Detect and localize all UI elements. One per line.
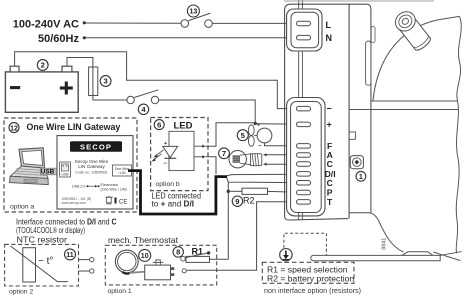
svg-text:One Wire LIN Gateway: One Wire LIN Gateway (27, 122, 121, 132)
thermistor R11 body (23, 248, 36, 282)
pin T (297, 200, 311, 205)
svg-text:11: 11 (66, 252, 74, 259)
suction pipe stub body (395, 13, 432, 53)
gateway One Wire LIN port box (112, 165, 131, 176)
LED lead lower (194, 156, 203, 158)
connector stem middle (298, 51, 300, 97)
pin P (297, 190, 311, 195)
node R1 dot (207, 251, 210, 254)
svg-text:NTC resistor: NTC resistor (17, 235, 68, 245)
pin minus (297, 106, 311, 111)
svg-text:R2: R2 (243, 196, 255, 206)
switch across R1 pivot (181, 256, 186, 261)
AC connector outer (287, 9, 322, 51)
svg-text:USB: USB (61, 173, 69, 177)
wire fuse to switch 4 (93, 96, 127, 101)
svg-text:T: T (327, 197, 333, 207)
option box 6 LED (151, 118, 208, 191)
svg-text:9: 9 (235, 197, 239, 206)
pin N (297, 35, 311, 40)
svg-text:USB: USB (41, 169, 55, 176)
laptop PC (9, 148, 48, 185)
svg-text:/ LIN: / LIN (118, 171, 126, 175)
pin F (297, 144, 311, 149)
unit right edge (348, 4, 350, 218)
svg-text:option b: option b (156, 181, 180, 188)
svg-text:CE: CE (119, 200, 127, 206)
wire AC line L to switch 13 (86, 22, 182, 24)
thermostat terminals (171, 267, 175, 270)
svg-text:LED: LED (174, 121, 193, 132)
switch S13 (181, 13, 212, 27)
svg-text:C: C (327, 178, 333, 188)
wire R1 to C2 drop (210, 258, 229, 260)
label circle 5 (237, 130, 248, 141)
wire LED minus to interface cable (206, 157, 216, 174)
gateway USB port icon (60, 162, 71, 177)
interface cable thick black (128, 171, 227, 214)
compressor skirt (369, 213, 404, 252)
fan M5 hub link (254, 135, 257, 137)
unit side bottom edge (349, 212, 369, 214)
unit bottom edge (285, 216, 348, 220)
svg-text:(One Wire / LIN): (One Wire / LIN) (101, 187, 127, 191)
wire lamp to A pin (263, 153, 267, 156)
compressor shell seam lower (350, 109, 459, 111)
wire AC line N to N pin (86, 37, 299, 39)
svg-text:non interface option (resistor: non interface option (resistors) (264, 286, 361, 295)
label circle 8 (173, 247, 183, 257)
switch S4 (127, 90, 159, 104)
svg-text:R2 = battery protection: R2 = battery protection (267, 274, 354, 284)
lamp neck (240, 154, 251, 155)
wire battery minus to minus pin (15, 52, 298, 109)
ground link dashed (284, 233, 327, 255)
svg-text:Secop One Wire: Secop One Wire (75, 159, 109, 164)
SECOP logo (70, 141, 122, 152)
svg-text:mech. Thermostat: mech. Thermostat (108, 235, 179, 245)
svg-text:to + and D/I: to + and D/I (152, 200, 195, 209)
battery minus sign (10, 86, 20, 89)
lamp filament block (233, 155, 240, 162)
pin D/I (297, 172, 311, 177)
thermistor diagonal (11, 246, 69, 282)
lamp screw base (251, 154, 262, 166)
thermostat adjusting screw (156, 260, 160, 265)
wire plus rail switch 4 to junction (159, 100, 256, 123)
svg-text:+: + (327, 119, 332, 129)
svg-text:+: + (164, 141, 167, 147)
label circle 4 (138, 104, 148, 114)
svg-text:8841: 8841 (381, 238, 387, 250)
option box 2 NTC (5, 244, 79, 286)
svg-text:50/60Hz: 50/60Hz (38, 33, 79, 45)
thermostat sensing coil (115, 250, 138, 273)
AC connector inner (291, 12, 319, 48)
svg-text:8: 8 (176, 248, 180, 257)
unit indicator icon (350, 156, 363, 169)
ground symbol (280, 249, 292, 261)
thermostat capillary (130, 272, 147, 273)
label circle 13 (187, 5, 199, 17)
pin plus (297, 122, 311, 127)
gateway cert mark (115, 198, 117, 204)
pin A (297, 153, 311, 158)
wire lamp to C pin (263, 163, 267, 166)
node plus junction dot (254, 122, 257, 125)
thermostat body 10 (145, 265, 171, 280)
connector stem top (298, 0, 300, 9)
svg-text:2: 2 (41, 61, 45, 70)
wire C2 drop to resistors (227, 182, 229, 259)
svg-text:option 1: option 1 (108, 288, 132, 295)
NTC terminal upper (79, 259, 90, 261)
node AC N dot (83, 36, 86, 39)
svg-text:100-240V AC: 100-240V AC (13, 18, 79, 30)
LED housing block (169, 131, 194, 170)
svg-text:N: N (326, 33, 333, 43)
gateway WEEE bin icon (106, 196, 113, 204)
svg-text:option a: option a (10, 204, 34, 211)
svg-text:www.secop.com: www.secop.com (62, 201, 87, 205)
suction pipe rings (413, 35, 431, 50)
label circle 9 (232, 196, 242, 206)
label circle 2 (37, 60, 48, 71)
compressor front edge (368, 4, 371, 213)
wire D/I net to pin (227, 174, 298, 176)
svg-text:option 2: option 2 (9, 289, 33, 295)
NTC terminal lower (79, 270, 90, 272)
DC connector outer (287, 98, 325, 216)
thermostat lower terminal circle (182, 269, 186, 273)
svg-text:+: + (257, 122, 260, 128)
svg-text:− t°: − t° (38, 256, 53, 267)
svg-text:SECOP: SECOP (80, 142, 112, 151)
svg-text:12: 12 (10, 125, 18, 132)
svg-text:6: 6 (157, 120, 161, 129)
unit mounting clip (349, 132, 355, 139)
wire R2 to P pin (268, 190, 299, 193)
wire C2 net to pin (227, 177, 298, 182)
svg-text:L: L (326, 20, 332, 30)
fan M5 blades (248, 125, 254, 136)
label circle 11 (65, 249, 76, 260)
label circle 12 (9, 123, 19, 133)
svg-text:7: 7 (222, 149, 226, 158)
compressor dome arc (373, 16, 460, 101)
battery plus sign (60, 86, 73, 89)
wire T pin to thermostat (186, 202, 298, 270)
compressor foot (402, 252, 433, 256)
compressor shell seam upper (372, 100, 459, 102)
svg-text:USB 2.0: USB 2.0 (72, 185, 85, 189)
battery 2 body (5, 72, 78, 112)
gateway device 105N9501 (57, 136, 133, 209)
DC connector inner (291, 102, 322, 213)
svg-text:13: 13 (190, 9, 198, 16)
wire battery plus to fuse (67, 58, 93, 68)
switch across R1 lever (185, 253, 208, 258)
option box 1 thermostat (105, 245, 216, 285)
wire switch 13 to L pin (212, 22, 298, 24)
svg-text:Code no.: 105N9501: Code no.: 105N9501 (75, 170, 107, 174)
LED light arrows (155, 150, 164, 157)
resistor R1 (186, 256, 210, 262)
label circle 10 (139, 249, 151, 261)
label circle 6 (154, 120, 164, 130)
suction pipe cap (395, 13, 417, 33)
LED D1 symbol (163, 146, 178, 157)
USB cable plug (41, 168, 58, 175)
compressor side tab (366, 41, 371, 85)
electronic unit 1 outline (285, 4, 368, 216)
label circle 3 (100, 76, 111, 87)
resistor R2 (242, 188, 268, 194)
node R2 junction dot (227, 190, 230, 193)
svg-text:(TOOL4COOL® or display): (TOOL4COOL® or display) (16, 226, 85, 235)
svg-text:−: − (327, 103, 332, 113)
label circle 1 (356, 171, 366, 181)
pin L (297, 21, 311, 26)
option box 12 One Wire LIN Gateway (4, 118, 137, 212)
wire fan to F pin (265, 143, 299, 146)
top scan smudge (284, 0, 434, 2)
lamp E7 bulb (229, 151, 246, 168)
legend box R1 R2 (262, 262, 354, 283)
compressor upper tab (371, 27, 375, 43)
wire plus junction to plus pin (255, 123, 298, 125)
wire LED plus to plus junction (206, 123, 256, 146)
battery terminal plus post (62, 66, 72, 72)
fan M5 motor (257, 128, 272, 143)
svg-text:−: − (163, 161, 167, 167)
node AC L dot (83, 21, 86, 24)
svg-text:10: 10 (141, 253, 149, 260)
connector stem bottom (298, 213, 300, 220)
wire to resistor R2 (228, 190, 242, 192)
svg-text:C: C (327, 159, 333, 169)
compressor torn edge (456, 16, 461, 253)
compressor rear skirt lines (433, 252, 460, 261)
fuse 3 (92, 67, 94, 96)
battery terminal minus post (10, 66, 19, 72)
pin C (297, 162, 311, 167)
pin C2 (297, 181, 311, 186)
svg-text:−: − (258, 144, 262, 150)
LED lead upper (194, 145, 203, 147)
label circle 7 (219, 148, 230, 159)
svg-text:3: 3 (103, 77, 107, 86)
base plate (311, 255, 440, 260)
svg-text:LIN Gateway: LIN Gateway (78, 164, 105, 169)
